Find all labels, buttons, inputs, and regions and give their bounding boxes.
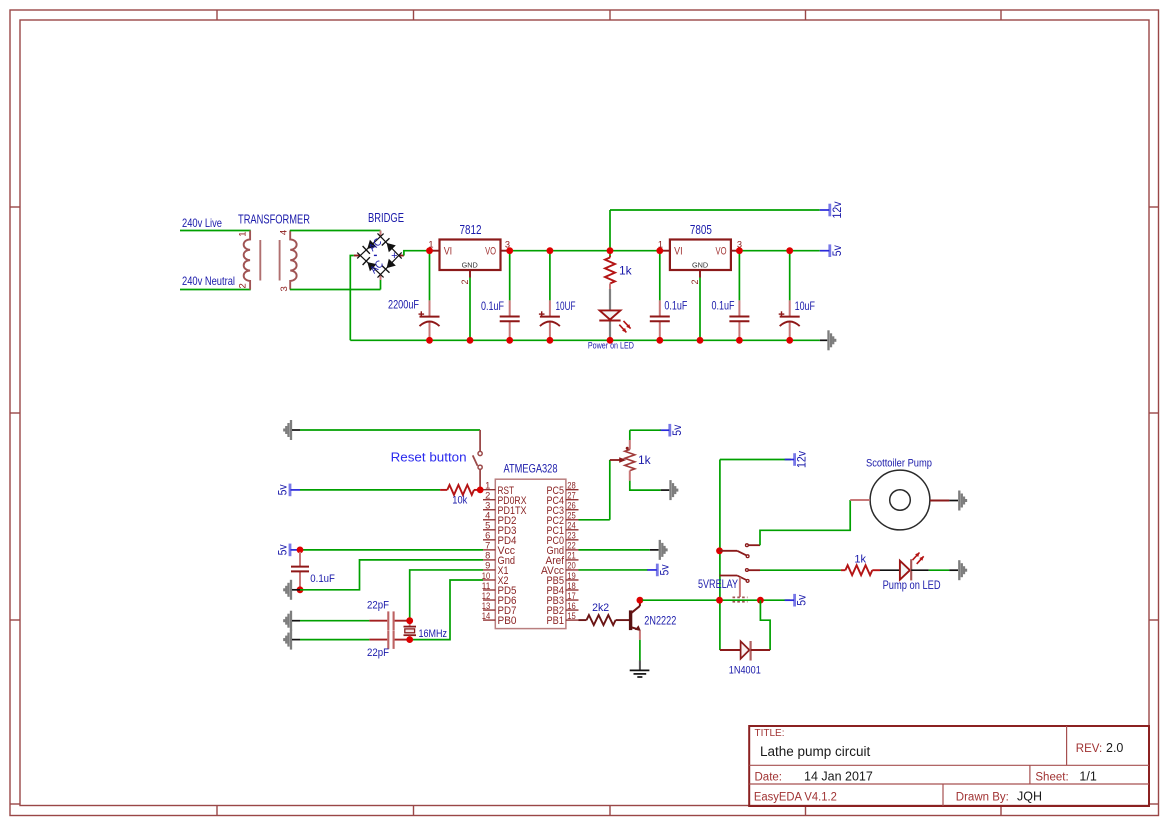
svg-text:Lathe pump circuit: Lathe pump circuit <box>760 744 871 759</box>
svg-text:2N2222: 2N2222 <box>644 616 676 628</box>
svg-text:22pF: 22pF <box>367 600 389 612</box>
svg-text:TITLE:: TITLE: <box>755 728 785 739</box>
svg-text:6: 6 <box>485 531 490 541</box>
svg-text:17: 17 <box>567 591 576 601</box>
svg-text:PB0: PB0 <box>498 615 517 627</box>
svg-text:0.1uF: 0.1uF <box>712 299 735 313</box>
svg-text:5v: 5v <box>659 564 671 575</box>
svg-text:ATMEGA328: ATMEGA328 <box>504 461 558 475</box>
svg-text:Sheet:: Sheet: <box>1035 772 1068 784</box>
svg-text:9: 9 <box>485 561 490 571</box>
svg-text:VO: VO <box>716 246 727 258</box>
svg-text:12: 12 <box>482 591 491 601</box>
svg-text:2: 2 <box>485 491 490 501</box>
svg-text:Scottoiler Pump: Scottoiler Pump <box>866 458 932 470</box>
svg-text:13: 13 <box>482 601 491 611</box>
svg-text:Reset button: Reset button <box>391 450 467 465</box>
svg-text:GND: GND <box>692 260 708 269</box>
svg-text:4: 4 <box>279 230 290 235</box>
svg-text:24: 24 <box>567 521 576 531</box>
svg-text:5: 5 <box>485 521 490 531</box>
svg-text:5v: 5v <box>672 424 684 435</box>
svg-text:0.1uF: 0.1uF <box>664 299 687 313</box>
svg-text:1k: 1k <box>638 453 652 467</box>
svg-text:4: 4 <box>485 511 490 521</box>
svg-text:1k: 1k <box>619 264 633 278</box>
svg-text:23: 23 <box>567 531 576 541</box>
svg-text:10uF: 10uF <box>795 299 815 313</box>
svg-text:7812: 7812 <box>460 223 482 237</box>
svg-text:5v: 5v <box>278 544 290 555</box>
svg-text:15: 15 <box>567 611 576 621</box>
svg-text:14 Jan 2017: 14 Jan 2017 <box>804 770 873 784</box>
svg-text:5v: 5v <box>278 484 290 495</box>
svg-text:2: 2 <box>237 283 248 288</box>
svg-text:10k: 10k <box>452 495 467 507</box>
svg-text:14: 14 <box>482 611 491 621</box>
svg-text:Drawn By:: Drawn By: <box>956 792 1009 804</box>
svg-text:19: 19 <box>567 571 576 581</box>
svg-text:0.1uF: 0.1uF <box>310 573 335 585</box>
svg-text:PB1: PB1 <box>547 615 565 627</box>
svg-text:BRIDGE: BRIDGE <box>368 211 404 225</box>
svg-text:18: 18 <box>567 581 576 591</box>
svg-text:26: 26 <box>567 501 576 511</box>
svg-text:VI: VI <box>674 246 683 258</box>
svg-text:2k2: 2k2 <box>592 602 609 614</box>
svg-text:VI: VI <box>444 246 453 258</box>
svg-text:25: 25 <box>567 511 576 521</box>
svg-text:21: 21 <box>567 551 576 561</box>
svg-text:27: 27 <box>567 491 576 501</box>
svg-text:16: 16 <box>567 601 576 611</box>
svg-text:240v Live: 240v Live <box>182 216 222 230</box>
svg-text:16MHz: 16MHz <box>419 628 448 640</box>
svg-text:11: 11 <box>482 581 491 591</box>
svg-text:5v: 5v <box>797 594 809 605</box>
svg-text:22pF: 22pF <box>367 647 389 659</box>
svg-text:28: 28 <box>567 481 576 491</box>
svg-text:2.0: 2.0 <box>1106 741 1123 755</box>
svg-text:Pump on LED: Pump on LED <box>883 580 941 592</box>
svg-text:8: 8 <box>485 551 490 561</box>
svg-text:+: + <box>391 250 397 262</box>
svg-text:Date:: Date: <box>755 772 783 784</box>
svg-text:1k: 1k <box>854 554 866 566</box>
svg-text:2200uF: 2200uF <box>388 298 419 312</box>
svg-text:5VRELAY: 5VRELAY <box>698 579 738 591</box>
svg-text:3: 3 <box>485 501 490 511</box>
svg-text:5v: 5v <box>832 245 844 256</box>
svg-text:22: 22 <box>567 541 576 551</box>
svg-text:7: 7 <box>485 541 490 551</box>
svg-text:2: 2 <box>460 279 470 284</box>
svg-text:REV:: REV: <box>1076 743 1102 755</box>
svg-text:12v: 12v <box>832 201 844 218</box>
svg-text:3: 3 <box>279 286 290 291</box>
svg-text:0.1uF: 0.1uF <box>481 299 504 313</box>
svg-text:JQH: JQH <box>1017 790 1042 804</box>
svg-text:1/1: 1/1 <box>1079 770 1096 784</box>
svg-text:7805: 7805 <box>690 223 712 237</box>
svg-text:1N4001: 1N4001 <box>729 664 761 676</box>
svg-text:VO: VO <box>485 246 496 258</box>
svg-text:12v: 12v <box>797 451 809 468</box>
svg-text:1: 1 <box>485 481 490 491</box>
svg-text:240v Neutral: 240v Neutral <box>182 274 235 288</box>
svg-text:10UF: 10UF <box>556 299 576 313</box>
svg-text:GND: GND <box>462 260 478 269</box>
svg-text:10: 10 <box>482 571 491 581</box>
svg-text:TRANSFORMER: TRANSFORMER <box>238 213 310 227</box>
svg-text:20: 20 <box>567 561 576 571</box>
svg-text:1: 1 <box>237 231 248 236</box>
svg-text:EasyEDA V4.1.2: EasyEDA V4.1.2 <box>754 792 837 804</box>
svg-text:2: 2 <box>690 279 700 284</box>
